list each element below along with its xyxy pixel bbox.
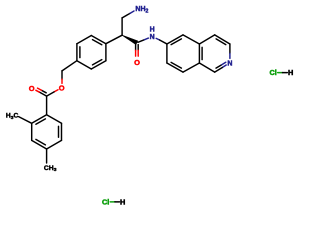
bond C(=O)-N (blue half) xyxy=(145,38,149,40)
bond C(=O)-N (black half) xyxy=(138,40,145,43)
isoquinoline inner double B2-B3 xyxy=(216,39,226,45)
bond CH2-NH2 (black half) xyxy=(122,13,130,18)
svg-text:CH3: CH3 xyxy=(44,165,57,173)
bond B3-N ring (blue half) xyxy=(229,53,231,58)
central benzene ring edge UR-LR xyxy=(105,44,107,61)
HCl unit 1: bond Cl-H (black half) xyxy=(283,72,288,74)
ester C=O main line (red half) xyxy=(36,90,39,92)
central benzene inner double LR-bottom xyxy=(93,60,102,65)
amide C=O double bond (red halves) xyxy=(135,50,137,56)
ester C=O main line (black half) xyxy=(39,92,46,96)
svg-text:H: H xyxy=(288,68,293,77)
svg-text:O: O xyxy=(134,58,140,67)
bond phenyl-CH2 benzylic xyxy=(62,61,77,71)
isoquinoline inner double A3-A4 xyxy=(201,47,203,59)
bond CH-phenyl xyxy=(106,35,122,44)
svg-text:Cl: Cl xyxy=(102,198,109,207)
central benzene inner double top-UR xyxy=(93,40,102,45)
bond C(=O)-aryl xyxy=(46,96,48,115)
central benzene ring edge LR-bottom (double) xyxy=(91,61,106,69)
dimethylphenyl inner double UR-LR xyxy=(58,126,60,137)
central benzene ring edge UL-top xyxy=(77,36,91,44)
isoquinoline edge A4-A5 xyxy=(183,63,199,72)
isoquinoline edge B5-A4 xyxy=(199,63,214,72)
HCl unit 2: bond Cl-H (black half) xyxy=(115,201,120,203)
bond N-B5 inner (black half) xyxy=(216,65,221,68)
svg-text:Cl: Cl xyxy=(270,68,277,77)
isoquinoline edge A3-B2 xyxy=(199,35,214,44)
svg-text:H: H xyxy=(120,198,125,207)
dimethylphenyl ring edge UL-top (double) xyxy=(32,115,47,124)
central benzene ring edge LL-UL (double) xyxy=(76,44,78,61)
bond aryl-CH3 ortho xyxy=(19,117,32,124)
dimethylphenyl ring edge LL-UL xyxy=(31,123,33,140)
bond CH2-NH2 (blue half) xyxy=(130,11,134,13)
isoquinoline inner double A1-A2 xyxy=(171,39,181,45)
HCl unit 1: bond Cl-H (green half) xyxy=(278,72,283,74)
bond O-C(=O) ester (red half) xyxy=(54,90,58,92)
svg-text:O: O xyxy=(59,83,65,92)
bond CH2-O ester (red half) xyxy=(61,79,63,83)
ester C=O inner line (black half) xyxy=(42,90,47,93)
bond N-isoquinoline (blue half) xyxy=(156,38,159,40)
dimethylphenyl ring edge UR-LR (double) xyxy=(61,123,63,140)
isoquinoline edge A1-A2 (double) xyxy=(167,35,183,44)
svg-text:H3C: H3C xyxy=(6,113,19,121)
bond CH2-O ester (black half) xyxy=(61,71,63,79)
dimethylphenyl inner double UL-top xyxy=(36,119,46,124)
svg-text:N: N xyxy=(150,34,155,41)
isoquinoline inner double A5-A6 xyxy=(171,62,181,68)
central benzene ring edge bottom-LL xyxy=(77,61,91,69)
ester C=O inner line (red half) xyxy=(38,88,42,90)
dimethylphenyl ring edge LR-bottom xyxy=(47,140,62,149)
isoquinoline edge A6-A1 xyxy=(166,44,168,63)
isoquinoline edge A5-A6 (double) xyxy=(167,63,183,72)
bond B3-N ring (black half) xyxy=(229,44,231,54)
central benzene ring edge top-UR (double) xyxy=(91,36,106,44)
dimethylphenyl ring edge top-UR xyxy=(47,115,62,124)
svg-text:NH2: NH2 xyxy=(135,6,148,14)
isoquinoline edge A2-A3 xyxy=(183,35,199,44)
wedge bond CH-C(=O) xyxy=(122,35,138,44)
bond N-B5 inner (blue half) xyxy=(221,62,226,65)
amide C=O double bond (black halves) xyxy=(135,45,137,51)
bond CH2-CH stereocenter xyxy=(121,18,123,35)
isoquinoline edge B2-B3 (double) xyxy=(215,35,230,44)
svg-text:N: N xyxy=(227,60,232,67)
central benzene inner double LL-UL xyxy=(79,47,81,58)
bond N-B5 main (black half) xyxy=(215,68,223,73)
HCl unit 2: bond Cl-H (green half) xyxy=(110,201,115,203)
bond N-isoquinoline (black half) xyxy=(160,40,167,44)
dimethylphenyl inner double LL-bottom xyxy=(36,139,46,145)
svg-text:H: H xyxy=(150,27,155,34)
bond aryl-CH3 para xyxy=(46,149,48,163)
dimethylphenyl ring edge LL-bottom (double) xyxy=(32,140,47,149)
svg-text:O: O xyxy=(29,84,35,93)
bond O-C(=O) ester (black half) xyxy=(47,92,55,96)
bond N-B5 main (blue half) xyxy=(222,65,226,67)
isoquinoline fusion bond A3-A4 xyxy=(198,44,200,63)
